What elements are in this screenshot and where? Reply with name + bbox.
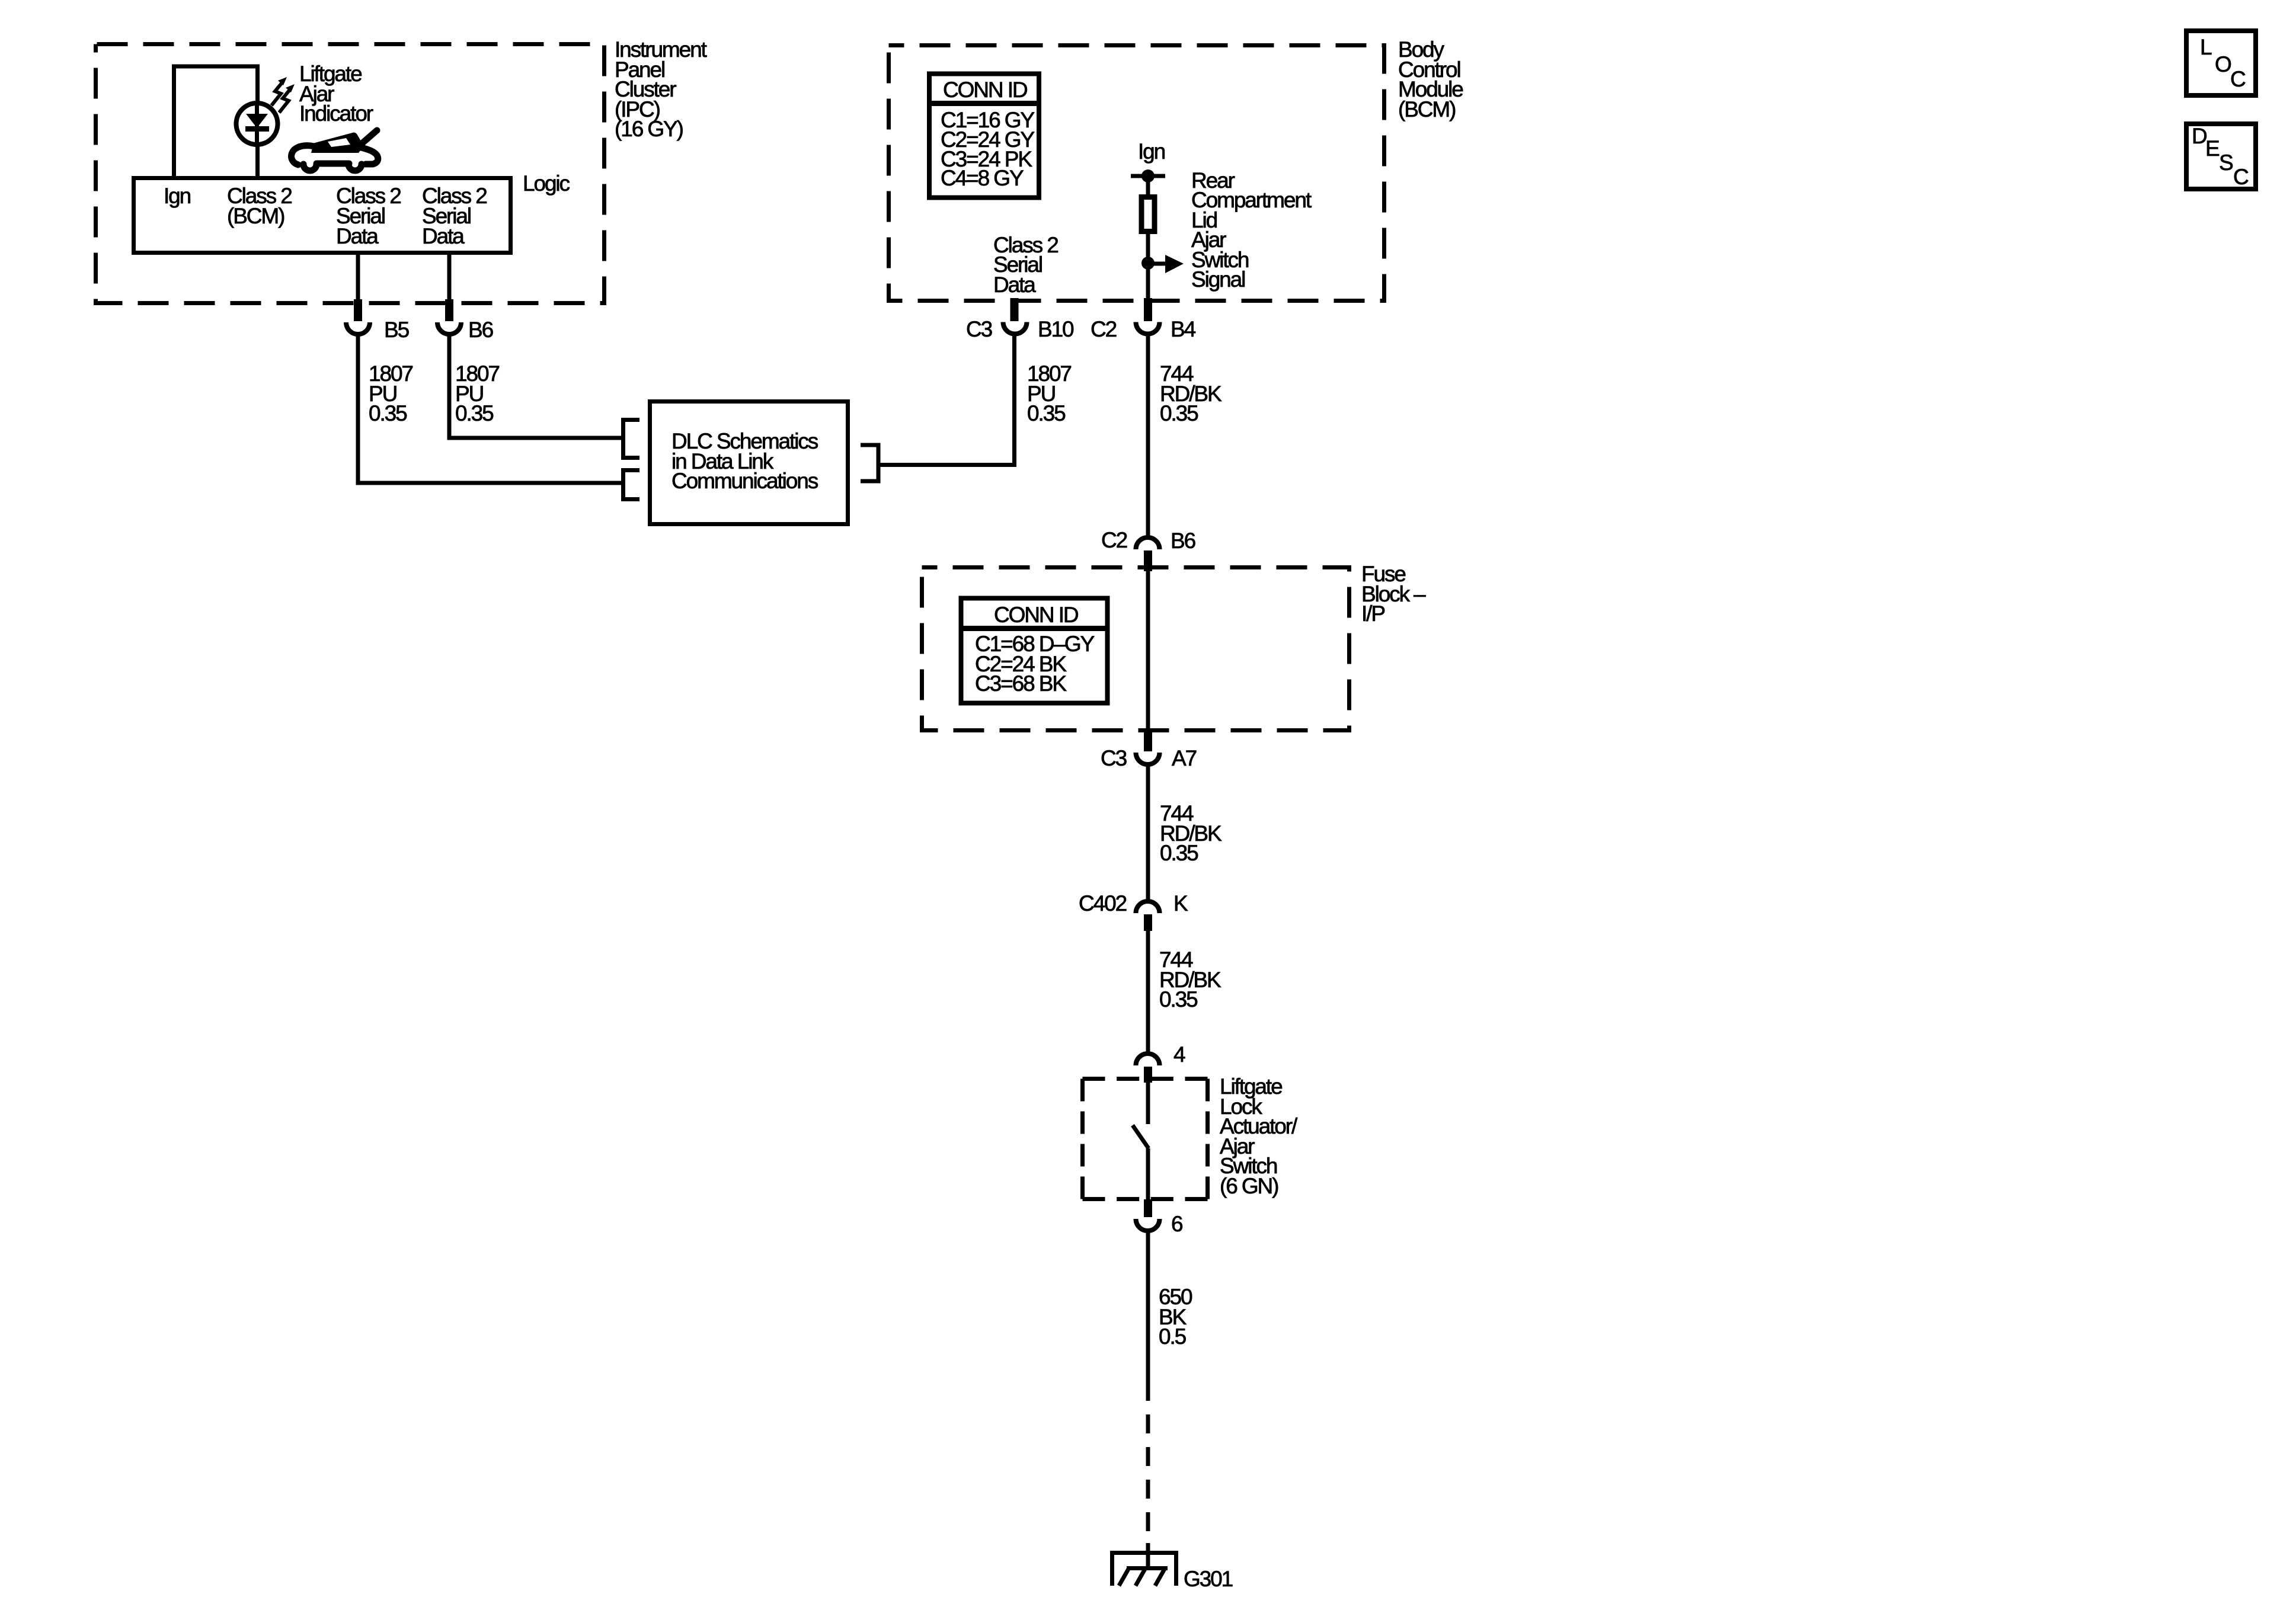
svg-text:Indicator: Indicator bbox=[299, 101, 373, 126]
wire: junction down through BCM box bbox=[1146, 263, 1150, 300]
svg-text:0.35: 0.35 bbox=[1027, 401, 1066, 425]
pin 6 stub bbox=[1144, 1199, 1152, 1217]
LOC reference box bbox=[2186, 31, 2256, 95]
Liftgate Lock Actuator / Ajar Switch dashed box bbox=[1083, 1079, 1208, 1199]
car liftgate-ajar icon bbox=[292, 130, 378, 171]
pin A7 stub bbox=[1144, 729, 1152, 751]
logic box pin labels bbox=[164, 184, 487, 248]
connector pin 4 half-moon bbox=[1136, 1054, 1160, 1065]
pin B10 stub bbox=[1011, 298, 1019, 321]
wire label 650 BK 0.5 bbox=[1159, 1285, 1192, 1349]
dashed ground wire bbox=[1146, 1414, 1150, 1541]
svg-text:0.35: 0.35 bbox=[1160, 401, 1198, 425]
wire label 1807 PU 0.35 (B6) bbox=[455, 361, 499, 425]
pin B6 stub bbox=[445, 299, 453, 321]
wire 1807 PU 0.35 from B6 to DLC upper bracket bbox=[449, 335, 621, 438]
svg-text:C: C bbox=[2230, 67, 2246, 91]
svg-text:Communications: Communications bbox=[671, 469, 818, 493]
svg-text:S: S bbox=[2219, 151, 2233, 175]
LED lamp circle (Liftgate Ajar Indicator) bbox=[236, 103, 278, 145]
wire: logic box to pin B6 bbox=[447, 252, 452, 301]
wire 1807 PU 0.35 from B5 to DLC lower bracket bbox=[358, 335, 621, 483]
svg-text:B5: B5 bbox=[384, 318, 410, 342]
LED diode cathode bar bbox=[245, 126, 269, 132]
wire label 744 RD/BK 0.35 (3) bbox=[1159, 948, 1221, 1012]
svg-text:(BCM): (BCM) bbox=[227, 204, 284, 228]
svg-text:(BCM): (BCM) bbox=[1398, 97, 1456, 121]
Rear Compartment Lid Ajar Switch Signal label bbox=[1191, 168, 1312, 292]
DLC box label bbox=[671, 429, 818, 493]
svg-text:C: C bbox=[2233, 165, 2249, 189]
svg-text:L: L bbox=[2200, 35, 2212, 59]
svg-text:(6 GN): (6 GN) bbox=[1220, 1174, 1278, 1198]
svg-text:E: E bbox=[2205, 136, 2220, 161]
Body Control Module (BCM) dashed box bbox=[889, 46, 1384, 301]
wire: LED cathode to logic box bbox=[255, 145, 260, 178]
svg-text:D: D bbox=[2192, 124, 2207, 148]
svg-text:A7: A7 bbox=[1172, 746, 1197, 770]
Fuse CONN ID table bbox=[961, 598, 1108, 703]
Fuse Block I/P dashed box bbox=[922, 568, 1350, 731]
LED diode triangle bbox=[246, 114, 268, 128]
ajar switch wire out bbox=[1146, 1148, 1150, 1201]
ground G301 symbol bbox=[1112, 1553, 1176, 1586]
pin 4 stub bbox=[1144, 1067, 1152, 1083]
BCM module label text bbox=[1398, 37, 1463, 121]
DESC reference box bbox=[2186, 124, 2256, 189]
connector pin B10 cup bbox=[1003, 322, 1027, 334]
svg-text:0.35: 0.35 bbox=[369, 401, 407, 425]
svg-text:CONN ID: CONN ID bbox=[943, 78, 1027, 102]
pull-up resistor bbox=[1141, 197, 1155, 232]
svg-text:6: 6 bbox=[1171, 1212, 1182, 1236]
wire label 744 RD/BK 0.35 bbox=[1160, 361, 1222, 425]
connector pin B5 cup bbox=[346, 322, 370, 334]
wire: logic box to pin B5 bbox=[356, 252, 360, 301]
DLC Schematics box bbox=[650, 402, 848, 524]
svg-text:C2: C2 bbox=[1091, 317, 1117, 341]
Ign junction dot bbox=[1141, 169, 1155, 183]
ajar switch blade bbox=[1133, 1125, 1149, 1148]
Instrument Panel Cluster (IPC) module dashed box bbox=[96, 44, 605, 303]
DLC upper-left bracket bbox=[623, 420, 640, 458]
svg-text:Logic: Logic bbox=[523, 171, 570, 196]
connector pin B4 cup bbox=[1136, 322, 1160, 334]
in-line connector C2-B6 half-moon (fuse block input) bbox=[1136, 537, 1160, 549]
Fuse Block label bbox=[1361, 562, 1426, 626]
lightning arrow 2 bbox=[279, 84, 295, 113]
svg-text:Data: Data bbox=[336, 224, 379, 248]
wire: Ign bar to resistor bbox=[1146, 176, 1150, 196]
BCM CONN ID table bbox=[929, 74, 1039, 198]
IPC logic box bbox=[134, 178, 511, 253]
wire 744 RD/BK 0.35 from B4 to fuse block bbox=[1146, 335, 1150, 536]
Class 2 Serial Data label (BCM) bbox=[993, 233, 1058, 297]
car body wedge and window bbox=[311, 135, 362, 153]
fuse input stub bbox=[1144, 550, 1152, 571]
wire label 744 RD/BK 0.35 (2) bbox=[1160, 801, 1222, 865]
connector pin 6 cup bbox=[1136, 1219, 1160, 1231]
Liftgate Lock Actuator label bbox=[1220, 1074, 1298, 1198]
junction node dot bbox=[1141, 257, 1155, 270]
indicator label text bbox=[299, 62, 373, 126]
svg-text:Signal: Signal bbox=[1191, 267, 1245, 292]
svg-text:0.35: 0.35 bbox=[1159, 987, 1198, 1012]
svg-text:C4=8 GY: C4=8 GY bbox=[941, 166, 1024, 190]
svg-text:4: 4 bbox=[1173, 1042, 1185, 1067]
svg-text:Ign: Ign bbox=[1138, 139, 1165, 164]
wire label 1807 PU 0.35 (B5) bbox=[369, 361, 412, 425]
wire: resistor to junction bbox=[1146, 232, 1150, 263]
svg-text:C3=68 BK: C3=68 BK bbox=[975, 671, 1067, 696]
svg-text:Data: Data bbox=[993, 273, 1036, 297]
svg-text:G301: G301 bbox=[1184, 1567, 1233, 1591]
ajar switch wire in bbox=[1146, 1081, 1150, 1124]
svg-text:Ign: Ign bbox=[164, 184, 191, 208]
svg-text:B4: B4 bbox=[1171, 317, 1196, 341]
svg-text:C402: C402 bbox=[1079, 891, 1127, 916]
wire through fuse block bbox=[1146, 570, 1150, 730]
wire: Ign loop to indicator bbox=[174, 66, 258, 178]
svg-text:B10: B10 bbox=[1038, 317, 1074, 341]
svg-text:Data: Data bbox=[422, 224, 465, 248]
svg-text:K: K bbox=[1173, 891, 1188, 916]
pin B4 stub bbox=[1144, 298, 1152, 321]
svg-text:0.5: 0.5 bbox=[1159, 1324, 1187, 1349]
connector pin B6 cup bbox=[437, 322, 461, 334]
pin B5 stub bbox=[354, 299, 362, 321]
svg-text:C2: C2 bbox=[1101, 528, 1127, 552]
svg-text:CONN ID: CONN ID bbox=[994, 603, 1078, 627]
svg-text:C3: C3 bbox=[1101, 746, 1127, 770]
svg-text:B6: B6 bbox=[1171, 529, 1195, 553]
wire 744 RD/BK 0.35 to liftgate bbox=[1146, 929, 1150, 1052]
DLC lower-left bracket bbox=[623, 470, 640, 500]
wire 1807 PU 0.35 from DLC right bracket to pin B10 bbox=[878, 335, 1015, 465]
wire 744 RD/BK 0.35 to C402 bbox=[1146, 766, 1150, 901]
connector pin A7 cup bbox=[1136, 753, 1160, 764]
in-line connector C402 pin K half-moon bbox=[1136, 901, 1160, 913]
svg-text:I/P: I/P bbox=[1361, 601, 1384, 626]
wire label 1807 PU 0.35 (B10) bbox=[1027, 361, 1071, 425]
svg-text:0.35: 0.35 bbox=[455, 401, 494, 425]
wire 650 BK 0.5 bbox=[1146, 1233, 1150, 1401]
switch signal arrow bbox=[1148, 262, 1166, 266]
svg-text:(16 GY): (16 GY) bbox=[615, 117, 683, 141]
C402 stub bbox=[1144, 914, 1152, 931]
Ign feed bar bbox=[1131, 174, 1165, 178]
IPC module label text bbox=[615, 37, 708, 141]
DLC right bracket bbox=[861, 445, 878, 481]
svg-text:C3: C3 bbox=[966, 317, 992, 341]
svg-text:B6: B6 bbox=[468, 318, 493, 342]
svg-text:0.35: 0.35 bbox=[1160, 841, 1198, 865]
svg-text:O: O bbox=[2215, 52, 2231, 76]
LED wire through circle bbox=[255, 103, 259, 145]
lightning arrow 1 bbox=[271, 77, 287, 105]
